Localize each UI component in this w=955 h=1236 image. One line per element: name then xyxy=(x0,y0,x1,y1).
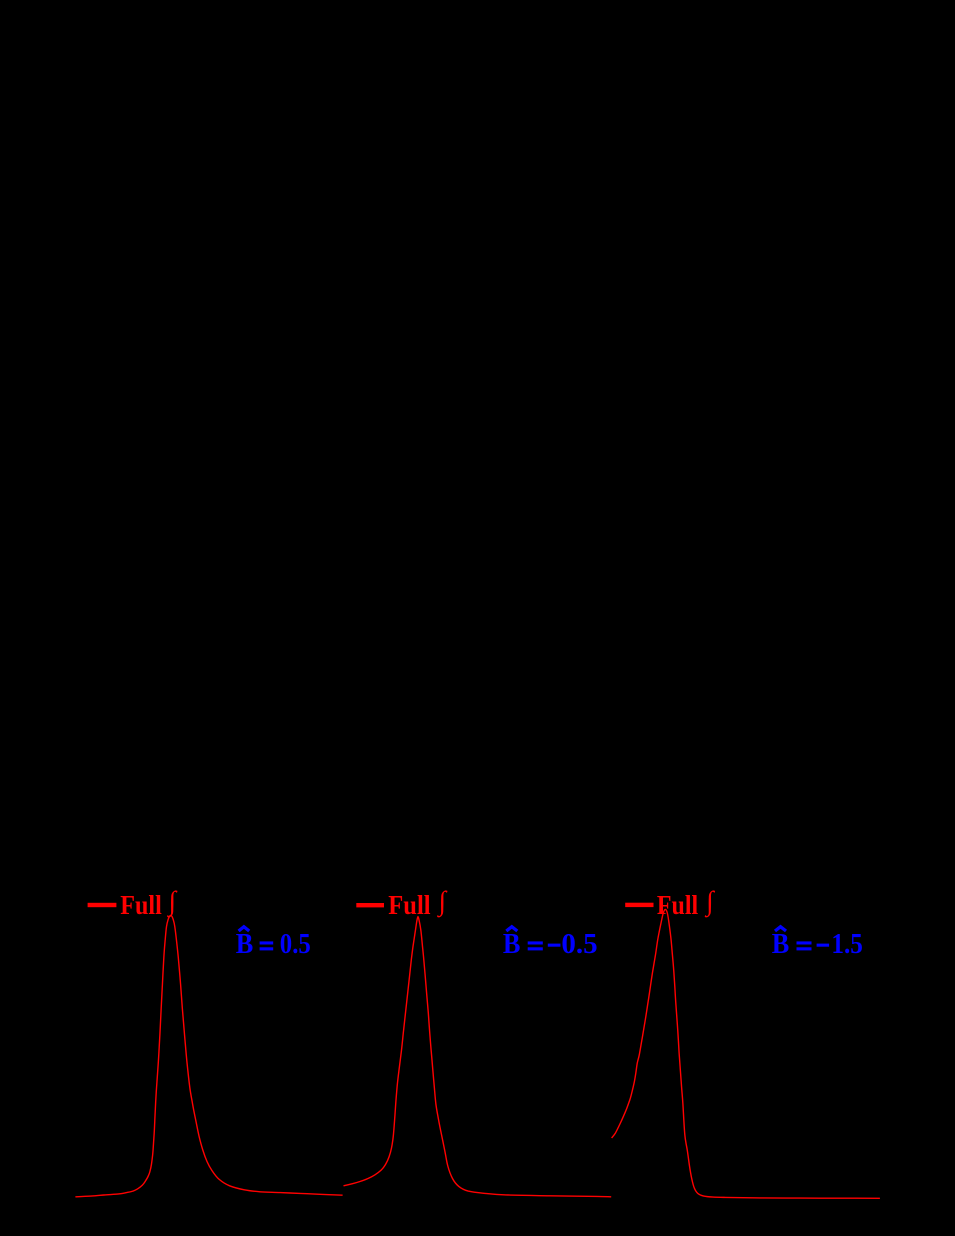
curve panel 2 (B=-0.5) xyxy=(344,917,612,1197)
curve panel 3 (B=-1.5) xyxy=(612,910,880,1199)
svg-text:1.5: 1.5 xyxy=(831,928,863,960)
svg-text:B: B xyxy=(772,928,790,960)
legend 2 line sample xyxy=(356,903,384,907)
legend 3 line sample xyxy=(625,903,653,907)
curve panel 1 (B=0.5) xyxy=(75,915,342,1197)
svg-text:Full: Full xyxy=(120,889,162,920)
legend 1 line sample xyxy=(88,903,117,907)
svg-text:0.5: 0.5 xyxy=(280,928,311,960)
svg-text:Full: Full xyxy=(388,889,431,920)
svg-text:0.5: 0.5 xyxy=(561,928,597,960)
svg-text:Full: Full xyxy=(657,889,699,920)
svg-text:B: B xyxy=(236,928,254,960)
svg-text:B: B xyxy=(503,928,521,960)
